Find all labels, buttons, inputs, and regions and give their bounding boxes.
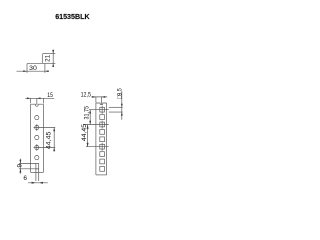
centerline square 3 vertical: [101, 121, 103, 129]
dim sq9,5 ext line top: [109, 106, 123, 108]
dim 15 ext line notch center: [36, 98, 38, 104]
svg-text:21: 21: [45, 55, 52, 62]
dim 31,75 arrow top (inside pointing up): [89, 110, 91, 114]
dim 30 dimension line: [17, 70, 49, 72]
svg-text:12,5: 12,5: [81, 92, 92, 99]
svg-text:6: 6: [23, 175, 27, 182]
dim 15 dimension line: [25, 97, 54, 99]
square hole 7: [100, 152, 105, 157]
square hole 4: [100, 130, 105, 135]
dim 9 arrow top (outside pointing down): [19, 160, 21, 164]
dim 15 arrow left (outside pointing right): [27, 97, 31, 99]
svg-text:9: 9: [17, 164, 24, 168]
round hole 3: [35, 135, 39, 139]
dim 31,75 dimension line: [89, 110, 91, 125]
dim 15 arrow right (outside pointing left): [37, 97, 41, 99]
cross-section profile web vertical line: [41, 54, 43, 64]
square hole 3: [100, 122, 105, 127]
dim sq9,5 arrow bottom (outside pointing up): [121, 112, 123, 116]
dim 30 arrow right (outside pointing left): [45, 70, 49, 72]
dim 31,75 arrow bottom (inside pointing down): [89, 121, 91, 125]
dim 6 arrow left (outside pointing right): [32, 182, 36, 184]
dim 6 arrow right (outside pointing left): [39, 182, 43, 184]
centerline square 3 horizontal: [83, 124, 109, 126]
svg-text:61535BLK: 61535BLK: [55, 12, 90, 21]
dim 12,5 ext line left: [95, 97, 97, 103]
dim 44,45 front arrow bottom (inside pointing down): [53, 148, 55, 152]
round hole 1: [35, 116, 39, 120]
centerline square 1 horizontal: [89, 109, 109, 111]
front view right edge: [42, 104, 44, 172]
round hole 4: [35, 145, 39, 149]
dim 12,5 arrow right (outside pointing left): [102, 96, 106, 98]
dim 30 arrow left (outside pointing right): [23, 70, 27, 72]
dim 9 dimension line: [19, 159, 21, 174]
square hole 5: [100, 137, 105, 142]
round hole 2: [35, 125, 39, 129]
dim sq9,5 arrow top (outside pointing down): [121, 104, 123, 108]
front view left edge: [30, 104, 32, 172]
centerline square 1 vertical: [101, 106, 103, 114]
dim 21 arrow top (outside pointing down): [52, 50, 54, 54]
dim 6 dimension line: [28, 182, 48, 184]
square hole 9: [100, 167, 105, 172]
bottom slot rectangle 6x9: [36, 163, 39, 168]
dim 30 extension line left: [26, 64, 28, 73]
dim 15 ext line right: [42, 98, 44, 103]
dim 21 extension line bottom: [45, 62, 55, 64]
dim 30 extension line right: [44, 64, 46, 73]
dim 6 ext line left: [35, 169, 37, 181]
dim sq9,5 dimension line: [121, 92, 123, 120]
dim 6 ext line right: [38, 169, 40, 181]
dim 44,45 side arrow bottom (inside pointing down): [87, 143, 89, 147]
centerline hole 4 horizontal: [34, 147, 56, 149]
square hole 8: [100, 159, 105, 164]
square hole 6: [100, 144, 105, 149]
svg-text:44,45: 44,45: [81, 124, 88, 142]
side view bottom edge: [96, 174, 107, 176]
dim 21 dimension line: [52, 50, 54, 67]
dim 12,5 arrow left (outside pointing right): [92, 96, 96, 98]
square hole 2: [100, 115, 105, 120]
centerline hole 4 vertical: [36, 144, 38, 151]
centerline square 6 horizontal: [86, 146, 109, 148]
dim sq9,5 ext line bottom: [109, 111, 123, 113]
dim 44,45 front arrow top (inside pointing up): [53, 128, 55, 132]
svg-text:□9,5: □9,5: [116, 88, 123, 99]
dim 44,45 side dimension line: [87, 125, 89, 147]
front view bottom edge: [31, 171, 44, 173]
dim 9 ext line bottom: [19, 168, 39, 170]
cross-section profile bottom flange horizontal line: [27, 62, 45, 64]
side view right edge: [106, 103, 108, 175]
dim 44,45 dimension line front view: [53, 128, 55, 152]
dim 44,45 side arrow top (inside pointing up): [87, 125, 89, 129]
dim 15 ext line left: [30, 98, 32, 103]
svg-text:31,75: 31,75: [83, 106, 90, 120]
centerline hole 2 horizontal: [34, 127, 56, 129]
dim 12,5 dimension line: [91, 96, 107, 98]
dim 9 arrow bottom (outside pointing up): [19, 169, 21, 173]
side view top edge with center notch: [96, 103, 107, 105]
round hole 5: [35, 156, 39, 160]
svg-text:44,45: 44,45: [46, 131, 53, 149]
front view top edge with center notch: [31, 104, 44, 106]
svg-text:30: 30: [29, 65, 37, 72]
square hole 1: [100, 107, 105, 112]
centerline square 6 vertical: [101, 143, 103, 151]
dim 9 ext line top: [19, 162, 36, 164]
dim 12,5 ext line right (notch center): [101, 97, 103, 105]
svg-text:15: 15: [47, 92, 53, 99]
dim 21 extension line top: [43, 53, 55, 55]
dim 21 arrow bottom (outside pointing up): [52, 63, 54, 67]
centerline hole 2 vertical: [36, 124, 38, 131]
side view left edge: [95, 103, 97, 175]
